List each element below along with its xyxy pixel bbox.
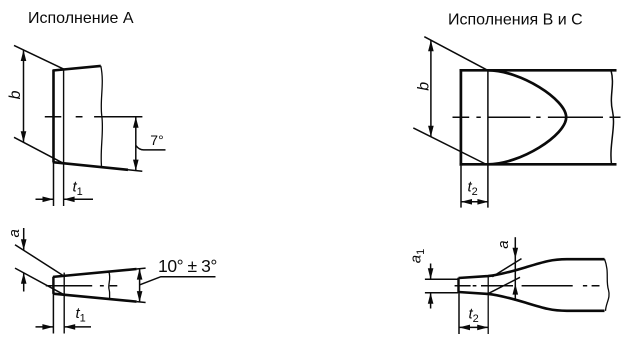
fig2 upper oblique extension for a <box>15 245 64 277</box>
fig3 upper oblique extension for b <box>424 37 488 71</box>
fig3 top edge <box>460 69 617 72</box>
fig4 t2 arrow right <box>477 325 488 331</box>
fig4 a1 arrow lower <box>428 293 434 304</box>
fig1 dimension line b <box>23 50 25 142</box>
fig3 break (wavy) line <box>611 70 614 164</box>
svg-text:a: a <box>6 229 23 237</box>
fig4 tip end face <box>457 278 459 293</box>
fig2 top edge thin extension <box>137 267 146 270</box>
fig1 t1 right arrow tail <box>64 198 93 200</box>
fig1 upper oblique extension for b <box>14 45 64 69</box>
svg-text:t1: t1 <box>73 179 83 199</box>
fig3 b arrow top <box>428 40 434 51</box>
fig4 oblique extension a upper <box>492 259 521 277</box>
fig1 leader for 7deg <box>136 145 166 150</box>
fig3 b arrow bottom <box>428 126 434 137</box>
svg-text:a: a <box>495 240 512 248</box>
fig2 t1 left extension <box>52 294 54 334</box>
svg-text:a1: a1 <box>407 249 427 263</box>
fig4 bottom profile <box>459 292 605 311</box>
fig1 top edge <box>53 66 101 71</box>
fig1 7deg arrow top <box>133 117 139 128</box>
fig2 bottom edge thin extension <box>137 301 146 304</box>
fig1 bottom edge (thick part) <box>53 162 128 170</box>
svg-text:b: b <box>7 90 24 99</box>
fig4 dimension line a <box>514 237 516 301</box>
fig2 t1 right arrow tail <box>64 326 91 328</box>
svg-text:Исполнение А: Исполнение А <box>28 10 134 27</box>
svg-text:b: b <box>415 82 432 91</box>
fig2 tip end face (thick) <box>52 277 54 294</box>
svg-text:7°: 7° <box>150 132 163 148</box>
fig4 t2 arrow left <box>459 325 470 331</box>
fig3 bottom edge <box>460 163 617 166</box>
fig3 t2 left extension <box>460 166 462 208</box>
svg-text:t2: t2 <box>468 179 478 199</box>
fig1 t1 left arrow tail <box>36 198 54 200</box>
fig3 t2 line / right extension <box>487 70 489 207</box>
fig2 dimension line 10deg <box>139 269 141 303</box>
fig1 t1 left extension line <box>53 162 55 206</box>
fig4 centerline <box>455 285 600 287</box>
fig4 a1 arrow upper <box>428 268 434 279</box>
fig2 t1 right extension line <box>63 273 65 334</box>
fig2 t1 arrow left <box>42 324 53 330</box>
fig2 t1 arrow right <box>64 324 75 330</box>
fig3 centerline <box>453 116 621 118</box>
fig2 10deg arrow bottom <box>137 291 143 302</box>
svg-text:t1: t1 <box>76 305 86 325</box>
fig4 a1 lower extension line <box>425 292 458 294</box>
fig3 lower oblique extension for b <box>413 128 485 164</box>
fig2 lower oblique extension for a <box>15 268 64 295</box>
fig4 break (wavy) line <box>605 259 610 311</box>
fig3 blade end face (left edge) <box>460 69 463 166</box>
fig1 7deg arrow bottom <box>133 160 139 171</box>
fig3 parabolic ground profile <box>488 70 566 164</box>
fig1 bottom edge thin extension <box>128 170 142 172</box>
fig1 t1 arrow right <box>64 197 75 203</box>
fig2 break (wavy) line <box>109 272 110 299</box>
fig4 a1 upper extension line <box>425 278 458 280</box>
fig1 dimension line 7deg <box>135 117 137 171</box>
fig1 t1 arrow left <box>43 197 54 203</box>
fig4 a arrow lower <box>513 284 519 295</box>
fig1 b arrow top <box>21 50 27 61</box>
fig1 break (wavy) line <box>101 66 103 167</box>
svg-text:t2: t2 <box>469 306 479 326</box>
svg-text:10° ± 3°: 10° ± 3° <box>158 256 217 276</box>
fig2 top edge (wedge) <box>53 269 137 277</box>
fig2 dimension line a lower <box>23 273 25 292</box>
fig3 t2 arrow left <box>461 199 472 205</box>
fig1 centerline (dash-dot) <box>45 116 143 118</box>
fig2 leader for 10deg <box>140 277 216 285</box>
fig4 a arrow upper <box>513 248 519 259</box>
fig2 bottom edge (wedge) <box>53 294 137 302</box>
fig1 blade end face (left edge, thick) <box>52 70 55 163</box>
fig4 t2 left extension <box>458 293 460 334</box>
fig1 flat-zone line / t1 right extension <box>63 69 65 206</box>
fig4 oblique extension a lower <box>486 277 520 294</box>
fig4 dimension line a1 lower <box>430 293 432 309</box>
fig3 dimension line b <box>430 40 432 137</box>
fig4 t2 line / right extension <box>487 276 489 334</box>
fig4 t2 dimension line <box>459 326 488 328</box>
fig2 a arrow lower <box>21 273 27 284</box>
fig3 t2 arrow right <box>477 199 488 205</box>
fig2 10deg arrow top <box>137 269 143 280</box>
fig4 top profile <box>459 259 605 278</box>
fig3 t2 dimension line <box>461 201 488 203</box>
fig1 b arrow bottom <box>21 131 27 142</box>
fig1 lower oblique extension for b <box>14 137 64 163</box>
fig4 dimension line a1 upper <box>430 264 432 280</box>
fig2 centerline <box>46 285 118 287</box>
fig2 a arrow upper <box>21 239 27 250</box>
fig2 t1 left arrow tail <box>36 326 54 328</box>
fig2 dimension line a upper <box>23 228 25 250</box>
svg-text:Исполнения В и С: Исполнения В и С <box>448 12 583 29</box>
